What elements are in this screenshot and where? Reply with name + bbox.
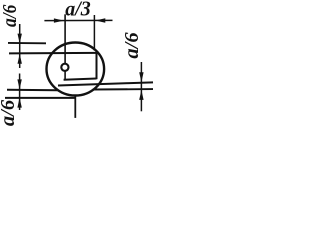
svg-text:a/6: a/6: [0, 99, 19, 126]
svg-text:a/6: a/6: [0, 4, 21, 27]
svg-text:a/3: a/3: [65, 0, 90, 21]
svg-text:a/6: a/6: [121, 32, 143, 59]
